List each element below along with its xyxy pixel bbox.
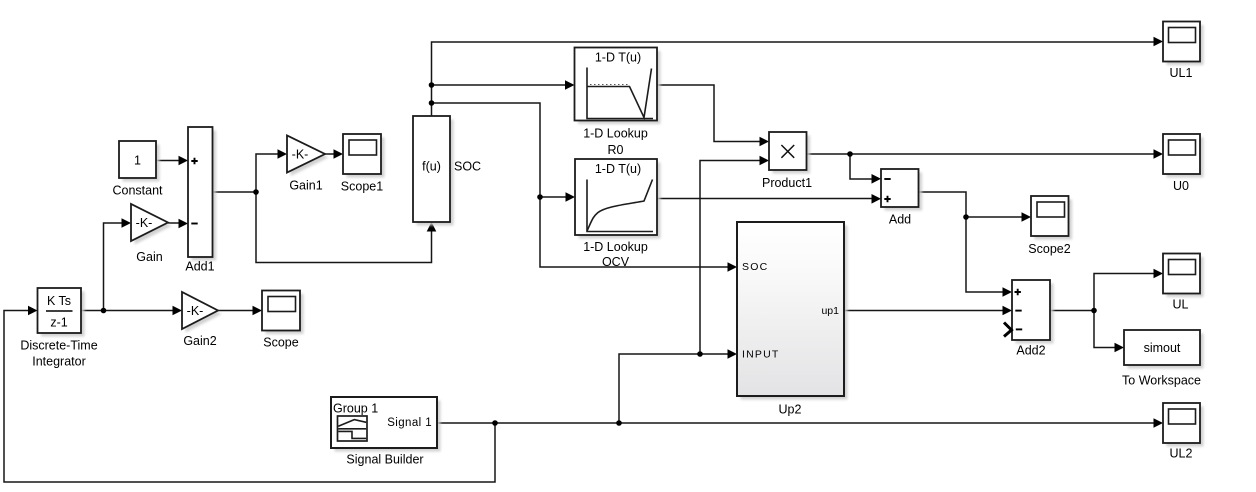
node: junction Add output [963,214,969,220]
arrowhead into Up2 INPUT [728,349,738,359]
svg-text:Scope2: Scope2 [1028,242,1070,256]
arrowhead into Add2 minus [1003,306,1013,316]
arrowhead into UL2 [1154,418,1164,428]
svg-text:Signal 1: Signal 1 [387,417,432,429]
wire: Add2 output trunk [1050,310,1094,312]
scope UL [1163,254,1204,298]
svg-text:1-D Lookup: 1-D Lookup [583,240,648,254]
arrowhead into Gain2 [173,306,183,316]
svg-text:To Workspace: To Workspace [1122,373,1201,387]
sum Add [881,169,922,211]
node: junction Product1 output [847,151,853,157]
node: junction on integrator output [101,308,107,314]
sum Add1 [188,127,216,261]
arrowhead into Add plus [872,194,882,204]
arrowhead into UL [1154,269,1164,279]
arrowhead into Up2 SOC [728,262,738,272]
node: junction SOC to OCV branch [429,100,435,106]
block 1-D Lookup R0 [575,48,661,125]
node: junction INPUT to Product1 branch [697,351,703,357]
svg-text:z-1: z-1 [50,316,67,330]
arrowhead into UL1 [1154,37,1164,47]
wire: Add1 output trunk [213,191,257,193]
svg-text:UL2: UL2 [1170,446,1193,460]
wire: branch down to Add minus input [850,154,873,179]
scope UL1 [1163,22,1204,66]
block f(u) Fcn [413,116,454,226]
wire: Up2 up1 output to Add2 second input [844,310,1004,312]
svg-text:up1: up1 [821,305,839,317]
svg-text:Product1: Product1 [762,176,812,190]
svg-text:simout: simout [1144,341,1181,355]
wire: branch up to Gain1 input [256,154,279,192]
svg-text:SOC: SOC [454,160,481,174]
wire: R0 lookup output to Product1 input 1 [657,85,761,142]
block Constant [119,141,160,182]
svg-text:Up2: Up2 [779,403,802,417]
svg-text:UL1: UL1 [1170,66,1193,80]
block 1-D Lookup OCV [575,159,661,239]
wire: f(u) SOC output up and right to UL1 [432,42,1156,116]
arrowhead into OCV lookup [566,192,576,202]
wire: branch up from INPUT trunk to Up2 INPUT port [619,354,729,423]
arrowhead into Gain [122,218,132,228]
node: junction on Add1 output [253,189,259,195]
svg-text:Group 1: Group 1 [333,402,378,416]
gain Gain [131,204,172,245]
arrowhead into simout [1115,343,1125,353]
node: junction Signal Builder feedback [492,420,498,426]
wire: Add output to Scope2 [919,192,1024,217]
arrowhead into Discrete-Time Integrator [28,306,38,316]
svg-text:-K-: -K- [292,148,309,162]
svg-text:Signal Builder: Signal Builder [346,453,423,467]
block Up2 subsystem [737,222,848,400]
svg-text:SOC: SOC [742,261,768,273]
unconnected port marker on Add2 third input [1004,323,1012,337]
svg-text:U0: U0 [1173,179,1189,193]
node: junction OCV input branch [537,194,543,200]
node: junction SOC to R0 [429,82,435,88]
node: junction INPUT trunk to Up2 [616,420,622,426]
wire: OCV lookup output to Add plus input [657,198,873,200]
scope U0 [1163,134,1204,178]
gain Gain2 [182,292,222,333]
node: junction Add2 output [1091,308,1097,314]
svg-text:Discrete-Time: Discrete-Time [20,339,97,353]
block simout To Workspace [1124,330,1204,369]
svg-text:Gain: Gain [136,250,162,264]
svg-text:f(u): f(u) [422,160,441,174]
wire: Discrete-Time Integrator output to Gain2 [81,310,174,312]
sum Add2 [1012,280,1054,344]
svg-text:Gain1: Gain1 [289,179,322,193]
svg-text:Constant: Constant [112,184,163,198]
svg-text:1: 1 [134,154,141,168]
svg-text:1-D T(u): 1-D T(u) [595,51,641,65]
scope UL2 [1163,403,1204,447]
arrowhead into Add1 plus [179,156,189,166]
arrowhead into Product1 input2 [760,156,770,166]
wire: branch up to UL scope [1094,274,1155,311]
arrowhead into R0 lookup [565,80,575,90]
arrowhead up into f(u) bottom [427,222,437,232]
arrowhead into Gain1 [278,149,288,159]
arrowhead into U0 [1154,149,1164,159]
arrowhead into Add minus [872,174,882,184]
wire: SOC branch down to OCV and Up2 SOC input [432,103,730,267]
wire: feedback branch down-left-up into integrator input [4,311,495,483]
svg-text:1-D T(u): 1-D T(u) [595,162,641,176]
wire: branch down and right into f(u) bottom input [256,192,432,263]
svg-text:Integrator: Integrator [32,355,86,369]
arrowhead into Product1 input1 [760,137,770,147]
svg-text:Gain2: Gain2 [183,334,216,348]
wire: branch down from Add output to Add2 plus input [966,217,1004,292]
arrowhead into Scope2 [1022,212,1032,222]
svg-text:UL: UL [1173,297,1189,311]
arrowhead into Add1 minus [179,219,189,229]
wire: branch up to Gain input [104,223,124,311]
svg-text:K Ts: K Ts [47,294,71,308]
wire: branch down to simout To Workspace [1094,311,1116,348]
wire: Constant output to Add1 plus input [156,160,180,162]
scope Scope2 [1031,196,1072,240]
arrowhead into Scope [253,306,263,316]
wire: SOC branch to 1-D Lookup R0 input [432,84,567,86]
scope Scope [262,291,304,335]
wire: Gain output to Add1 minus input [168,222,180,224]
wire: Gain2 output to Scope [218,310,254,312]
wire: branch to OCV lookup input [540,196,567,198]
svg-text:Add: Add [889,213,911,227]
svg-text:Scope1: Scope1 [341,180,383,194]
scope Scope1 [343,134,385,178]
svg-text:Add1: Add1 [185,260,214,274]
svg-text:OCV: OCV [602,255,630,269]
svg-text:1-D Lookup: 1-D Lookup [583,127,648,141]
svg-text:R0: R0 [608,143,624,157]
svg-text:Scope: Scope [263,336,298,350]
gain Gain1 [287,136,329,177]
svg-text:-K-: -K- [136,216,153,230]
svg-text:INPUT: INPUT [742,349,780,361]
svg-text:Add2: Add2 [1016,344,1045,358]
arrowhead into Add2 plus [1003,287,1013,297]
wire: Product1 output to U0 scope [806,153,1155,155]
arrowhead into Scope1 [334,149,344,159]
product Product1 [769,132,810,174]
wire: branch from INPUT line up to Product1 input 2 [700,161,761,355]
block Signal Builder [331,397,441,452]
svg-text:-K-: -K- [187,304,204,318]
block Discrete-Time Integrator [38,288,85,337]
wire: feedback trunk from Signal Builder to UL2 [437,422,1155,424]
wire: Gain1 output to Scope1 [325,153,335,155]
